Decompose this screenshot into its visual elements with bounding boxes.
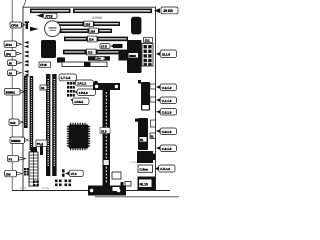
power header PS1 <box>29 152 38 186</box>
jumper arrows JP3 <box>24 60 29 67</box>
svg-text:JP8: JP8 <box>6 52 12 56</box>
jumper cluster JB <box>55 180 71 187</box>
connector CN4 <box>150 97 156 102</box>
svg-text:C.8.1.8: C.8.1.8 <box>162 147 172 151</box>
svg-text:U42: U42 <box>10 121 16 125</box>
lower rule <box>95 196 179 198</box>
top-left leader diagonal <box>23 0 26 7</box>
battery arrow <box>30 27 39 32</box>
chip U9 (top right rounded) <box>131 17 141 35</box>
callout JP3 <box>8 60 22 66</box>
svg-text:C.8.1.8: C.8.1.8 <box>162 130 172 134</box>
VRM block <box>127 40 142 73</box>
SIMM slot SM3 <box>46 74 50 176</box>
riser slot <box>100 90 110 186</box>
svg-text:JP10: JP10 <box>5 43 12 47</box>
connector CN9 small <box>121 182 132 187</box>
riser bracket bottom <box>88 186 126 196</box>
keyboard connector arrow <box>154 8 160 13</box>
battery B1 <box>45 21 61 37</box>
svg-text:SIMM2: SIMM2 <box>11 139 21 143</box>
svg-text:1718: 1718 <box>40 63 47 67</box>
connector J20 bar <box>111 44 123 48</box>
label SIMM box <box>40 85 47 90</box>
SIMM slot SM2 <box>30 76 34 150</box>
svg-text:SIMM1: SIMM1 <box>6 91 16 95</box>
callout J30 <box>5 170 23 177</box>
jumper arrows JP1 <box>24 41 29 48</box>
svg-text:17.8: 17.8 <box>101 44 107 48</box>
callout J9 (top right) <box>161 7 178 14</box>
svg-text:J4: J4 <box>9 71 13 75</box>
SIMM slot SM1 <box>24 76 28 128</box>
board outline <box>23 7 156 190</box>
chip U11 (right tall lower) <box>138 118 148 150</box>
CPU U5 <box>68 124 90 150</box>
slot row R4 <box>63 49 128 55</box>
cache chip U7 <box>57 57 65 62</box>
connector CN2 <box>112 172 121 179</box>
callout spine (left leader line) <box>11 0 13 191</box>
chip U10 (tall right) <box>141 82 150 111</box>
svg-text:J16: J16 <box>90 29 95 33</box>
label 17.1.8 <box>59 74 77 81</box>
callout P1 <box>8 155 27 162</box>
svg-text:P1: P1 <box>9 157 13 161</box>
callout CN7 <box>156 145 177 152</box>
bottom rule <box>12 190 170 192</box>
svg-text:J.P.1.2: J.P.1.2 <box>77 82 86 86</box>
svg-text:S1: S1 <box>41 86 45 90</box>
callout JP56 <box>75 89 96 95</box>
power header PS1 cap <box>31 147 38 153</box>
callout P8 <box>155 165 175 172</box>
chip U11 pins <box>135 119 138 122</box>
callout JP12 <box>75 80 98 86</box>
svg-text:J12: J12 <box>88 51 93 55</box>
svg-text:2.1m: 2.1m <box>131 161 138 164</box>
callout SIMM <box>5 88 26 95</box>
callout J713 <box>44 13 58 18</box>
label J22 <box>144 38 153 43</box>
DIP chip row R6 <box>62 62 107 67</box>
label box P8 <box>138 165 153 172</box>
svg-text:J30: J30 <box>6 172 11 176</box>
callout CN5 <box>156 109 177 116</box>
slot row R2 <box>60 28 112 34</box>
svg-text:J14: J14 <box>89 38 94 42</box>
callout JP78 <box>71 98 90 105</box>
chip U10 pins <box>138 80 141 84</box>
callout SIMM2 <box>10 137 29 144</box>
callout H2 <box>156 50 177 58</box>
callout CF10 <box>10 22 25 28</box>
jumper block JP12 <box>67 82 75 97</box>
callout CN3 <box>156 84 177 91</box>
chip U8 <box>119 51 129 61</box>
svg-text:C.5.1.9: C.5.1.9 <box>162 86 172 90</box>
svg-text:J10: J10 <box>96 57 101 61</box>
callout J31 <box>65 170 83 176</box>
jumper J31 <box>62 169 65 177</box>
svg-text:CF10: CF10 <box>11 24 19 28</box>
connector P1 glyph <box>25 21 29 29</box>
svg-text:J.P.8.0: J.P.8.0 <box>74 100 83 104</box>
ISA slot J1 (top-left bar) <box>30 9 71 14</box>
svg-text:rst tbr: rst tbr <box>42 187 50 190</box>
riser bracket top <box>93 83 120 90</box>
svg-text:J22: J22 <box>145 38 150 42</box>
jumper cluster JA <box>33 181 39 187</box>
svg-text:J.P.5.6: J.P.5.6 <box>79 91 88 95</box>
callout DRAM <box>9 119 24 126</box>
svg-text:bsoil: bsoil <box>20 187 26 190</box>
callout CN6 <box>156 128 177 135</box>
svg-text:J6: J6 <box>9 61 13 65</box>
svg-text:C.5nn: C.5nn <box>140 168 149 172</box>
svg-text:25968: 25968 <box>92 16 102 20</box>
label U1 box <box>39 62 51 67</box>
connector J20 label <box>100 44 110 49</box>
pin header H2 <box>142 44 153 67</box>
svg-text:XL8: XL8 <box>101 129 107 133</box>
svg-text:C.8.1.9: C.8.1.9 <box>162 110 172 114</box>
svg-text:C.1.1.9: C.1.1.9 <box>162 99 172 103</box>
svg-text:P1.2: P1.2 <box>37 142 44 146</box>
ISA slot J2 (top-right long bar) <box>73 9 152 14</box>
svg-text:C.5.n.9: C.5.n.9 <box>160 167 170 171</box>
fan header FN1 <box>40 146 43 156</box>
connector CN3 <box>150 84 156 89</box>
jumper block J30 <box>24 168 29 175</box>
slot row R1 <box>49 21 120 27</box>
svg-text:1.7.1.8: 1.7.1.8 <box>61 76 71 80</box>
slot row R5 with oval label <box>88 56 110 60</box>
svg-text:J2.1.8: J2.1.8 <box>162 53 171 57</box>
svg-text:51: 51 <box>151 134 155 138</box>
svg-text:81: 81 <box>140 138 144 142</box>
callout J713 arrow <box>37 13 44 17</box>
callout JP2 <box>5 51 22 57</box>
svg-text:J18: J18 <box>85 22 90 26</box>
callout JP4 <box>8 70 22 76</box>
connector block CN8 <box>137 151 156 163</box>
svg-text:J9 KB: J9 KB <box>163 9 173 13</box>
svg-text:NL10: NL10 <box>140 182 148 186</box>
label CN6b <box>150 133 156 139</box>
jumper arrows JP2 <box>24 51 29 58</box>
SIMM slot SM4 <box>52 74 56 176</box>
svg-text:J713: J713 <box>45 14 53 18</box>
chip U1 <box>41 40 56 58</box>
svg-text:8898: 8898 <box>129 54 136 58</box>
slot row R3 <box>64 36 128 42</box>
callout CN4 <box>156 97 177 104</box>
callout JP1 <box>4 41 22 47</box>
svg-text:J7.3: J7.3 <box>71 172 77 176</box>
connector CN6 <box>151 120 156 127</box>
connector P9 (bottom right labeled block) <box>138 177 156 191</box>
jumper arrows JP4 <box>24 70 29 77</box>
power header PS1 label <box>36 140 47 146</box>
